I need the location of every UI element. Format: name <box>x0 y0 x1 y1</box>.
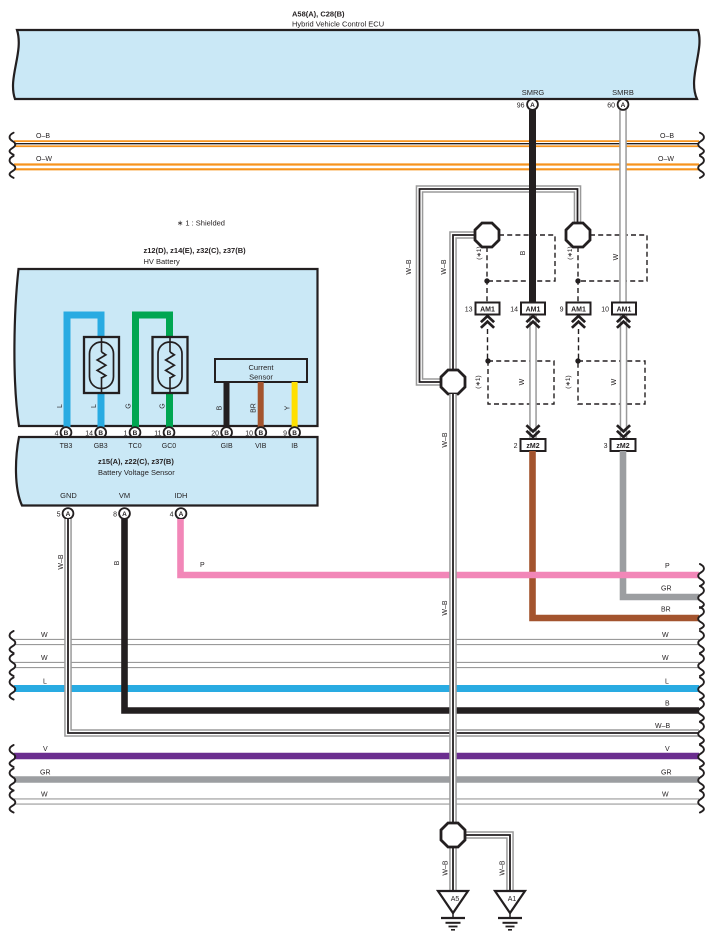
shield dashed lead AM1 9 to lower box <box>578 329 580 361</box>
connector AM1 pin 14 <box>510 303 545 315</box>
svg-text:W–B: W–B <box>443 860 450 876</box>
chevron above zM2 2 <box>526 425 539 437</box>
svg-text:60: 60 <box>607 103 615 110</box>
svg-text:TB3: TB3 <box>60 443 73 450</box>
bus wire W 3 <box>14 792 699 802</box>
svg-text:P: P <box>200 562 205 569</box>
wire L blue loop TB3-GB3 <box>67 315 101 427</box>
svg-text:W: W <box>41 632 48 639</box>
bus wire V violet <box>14 746 699 756</box>
current sensor box <box>215 359 307 382</box>
svg-text:W–B: W–B <box>441 259 448 275</box>
svg-text:Hybrid Vehicle Control ECU: Hybrid Vehicle Control ECU <box>292 20 384 29</box>
svg-text:W: W <box>41 792 48 799</box>
thermistor temperature sensor 2 <box>153 337 188 393</box>
pin 11 GC0 <box>154 427 174 438</box>
svg-text:zM2: zM2 <box>616 443 629 450</box>
bus wire W 1 <box>14 632 699 642</box>
wire W from AM1 10 to zM2 3 <box>620 315 628 440</box>
svg-text:HV Battery: HV Battery <box>144 257 181 266</box>
Battery Voltage Sensor box <box>16 437 318 506</box>
brace right L <box>698 678 704 700</box>
svg-text:W: W <box>662 632 669 639</box>
svg-text:10: 10 <box>601 307 609 314</box>
wire W-B central vertical octagon3 to octagon4 <box>449 394 457 823</box>
brace right P <box>698 564 704 586</box>
svg-text:IDH: IDH <box>175 491 188 500</box>
svg-text:W–B: W–B <box>500 860 507 876</box>
wire B from VM pin to right edge <box>125 519 700 711</box>
svg-text:B: B <box>217 405 224 410</box>
wire W-B inner (octagon1 to octagon3) <box>453 235 475 370</box>
brace left V <box>10 745 16 767</box>
svg-text:GC0: GC0 <box>162 443 177 450</box>
shield octagon 2 <box>566 223 590 247</box>
svg-text:AM1: AM1 <box>571 307 586 314</box>
svg-text:(∗1): (∗1) <box>565 375 572 388</box>
pin 96 SMRG <box>517 99 538 110</box>
svg-text:B: B <box>665 701 670 708</box>
shield dashed box lower left <box>488 361 554 404</box>
svg-text:SMRG: SMRG <box>522 88 545 97</box>
svg-text:4: 4 <box>170 512 174 519</box>
pin 5 GND <box>57 508 74 519</box>
shield dashed box upper right (around wire W) <box>578 235 647 281</box>
brace left W2 <box>10 654 16 676</box>
svg-text:GR: GR <box>661 770 672 777</box>
svg-text:W–B: W–B <box>442 600 449 616</box>
svg-text:W–B: W–B <box>442 432 449 448</box>
pin 20 GIB <box>211 427 232 438</box>
brace left W1 <box>10 631 16 653</box>
pin 10 VIB <box>245 427 266 438</box>
junction dot lower left shield <box>485 358 490 363</box>
bus wire W 2 <box>14 655 699 665</box>
pin 14 GB3 <box>85 427 106 438</box>
svg-text:TC0: TC0 <box>128 443 141 450</box>
wire P from IDH pin to right edge <box>181 519 700 575</box>
ground A1 <box>495 891 525 930</box>
svg-text:A: A <box>179 511 184 518</box>
ECU header label A58(A), C28(B) <box>292 10 384 29</box>
shield octagon 4 <box>441 823 465 847</box>
svg-text:W: W <box>662 792 669 799</box>
connector AM1 pin 13 <box>465 303 500 315</box>
wire BR from zM2 2 to right edge <box>533 451 700 618</box>
svg-text:GB3: GB3 <box>94 443 108 450</box>
junction dot upper left shield <box>484 278 489 283</box>
ground A5 <box>438 891 468 930</box>
svg-text:z12(D), z14(E), z32(C), z37(B): z12(D), z14(E), z32(C), z37(B) <box>144 246 247 255</box>
shield dashed lead octagon1 to AM1 13 <box>486 247 488 303</box>
svg-text:A: A <box>621 102 626 109</box>
svg-text:Y: Y <box>285 405 292 410</box>
svg-text:A: A <box>122 511 127 518</box>
brace right B <box>698 700 704 722</box>
svg-text:W: W <box>611 378 618 385</box>
svg-text:Current: Current <box>248 363 274 372</box>
wire B current sensor to GIB <box>224 382 230 427</box>
svg-text:L: L <box>57 404 64 408</box>
HV Battery box <box>14 269 317 426</box>
wire W from SMRB pin 60 to AM1 10 <box>619 110 627 303</box>
svg-text:GR: GR <box>40 770 51 777</box>
brace left W3 <box>10 791 16 813</box>
shield octagon 3 <box>441 370 465 394</box>
brace left O-B <box>10 133 16 155</box>
pin 4 IDH <box>170 508 187 519</box>
brace right V <box>698 745 704 767</box>
junction dot upper right shield <box>575 278 580 283</box>
svg-text:8: 8 <box>113 512 117 519</box>
svg-text:A: A <box>66 511 71 518</box>
brace right BR <box>698 607 704 629</box>
brace right GR <box>698 769 704 791</box>
svg-text:A1: A1 <box>508 896 517 903</box>
wire W from AM1 14 to zM2 2 <box>529 315 537 440</box>
chevron below AM1 14 <box>526 316 539 328</box>
svg-text:P: P <box>665 563 670 570</box>
connector AM1 pin 10 <box>601 303 636 315</box>
svg-text:L: L <box>43 679 47 686</box>
svg-text:O–W: O–W <box>36 156 52 163</box>
wire O-B horizontal <box>14 133 699 144</box>
wire Y current sensor to IB <box>292 382 298 427</box>
brace right W1 <box>698 631 704 653</box>
svg-text:G: G <box>126 403 133 408</box>
svg-text:W: W <box>662 655 669 662</box>
thermistor temperature sensor 1 <box>84 337 119 393</box>
svg-text:W–B: W–B <box>406 259 413 275</box>
svg-text:AM1: AM1 <box>617 307 632 314</box>
wire G green loop TC0-GC0 <box>136 315 170 427</box>
svg-text:O–B: O–B <box>660 133 674 140</box>
svg-text:B: B <box>114 560 121 565</box>
pin 1 TC0 <box>124 427 141 438</box>
svg-text:A: A <box>530 102 535 109</box>
svg-text:V: V <box>43 746 48 753</box>
wire W-B outer loop (octagon3 to octagon2) <box>420 189 578 382</box>
svg-text:AM1: AM1 <box>526 307 541 314</box>
connector AM1 pin 9 <box>560 303 591 315</box>
HV Battery header label z12(D), z14(E), z32(C), z37(B) <box>144 246 247 266</box>
svg-text:SMRB: SMRB <box>612 88 634 97</box>
svg-text:G: G <box>160 403 167 408</box>
svg-text:2: 2 <box>514 443 518 450</box>
wire W-B octagon4 to ground A1 <box>465 835 510 891</box>
brace right W3 <box>698 791 704 813</box>
svg-text:9: 9 <box>560 307 564 314</box>
shield dashed box lower right <box>578 361 645 404</box>
chevron below AM1 9 <box>572 316 585 328</box>
chevron below AM1 13 <box>481 316 494 328</box>
svg-text:AM1: AM1 <box>480 307 495 314</box>
svg-text:W: W <box>519 378 526 385</box>
svg-text:W–B: W–B <box>655 723 671 730</box>
svg-text:L: L <box>91 404 98 408</box>
Hybrid Vehicle Control ECU box <box>13 30 700 99</box>
svg-text:Battery Voltage Sensor: Battery Voltage Sensor <box>98 468 175 477</box>
svg-text:BR: BR <box>661 607 671 614</box>
chevron above zM2 3 <box>617 425 630 437</box>
svg-text:5: 5 <box>57 512 61 519</box>
brace right O-B <box>698 133 704 155</box>
pin 4 TB3 <box>55 427 72 438</box>
svg-text:Sensor: Sensor <box>249 373 273 382</box>
svg-text:GND: GND <box>60 491 77 500</box>
brace right W2 <box>698 654 704 676</box>
svg-text:B: B <box>520 250 527 255</box>
bus wire GR gray <box>14 770 699 780</box>
svg-text:W–B: W–B <box>58 554 65 570</box>
wire B from SMRG pin 96 to AM1 14 <box>529 110 536 303</box>
connector zM2 pin 3 <box>604 439 636 451</box>
svg-text:IB: IB <box>291 443 298 450</box>
wire O-W horizontal <box>14 156 699 167</box>
wire W-B octagon4 to ground A5 <box>449 847 457 891</box>
chevron below AM1 10 <box>617 316 630 328</box>
svg-text:A5: A5 <box>451 896 460 903</box>
Battery Voltage Sensor header label z15(A), z22(C), z37(B) <box>98 457 175 477</box>
svg-text:∗ 1 : Shielded: ∗ 1 : Shielded <box>177 219 225 228</box>
svg-text:O–B: O–B <box>36 133 50 140</box>
svg-text:BR: BR <box>251 403 258 413</box>
wire W-B from GND pin to right edge <box>68 519 699 733</box>
svg-text:14: 14 <box>510 307 518 314</box>
pin 60 SMRB <box>607 99 628 110</box>
brace left O-W <box>10 156 16 178</box>
svg-text:13: 13 <box>465 307 473 314</box>
svg-text:W: W <box>613 253 620 260</box>
shield dashed lead octagon2 to AM1 9 <box>577 247 579 303</box>
wire GR from zM2 3 to right edge <box>623 451 699 597</box>
pin 9 IB <box>283 427 300 438</box>
svg-text:GR: GR <box>661 586 672 593</box>
brace right W-B <box>698 722 704 744</box>
svg-text:A58(A), C28(B): A58(A), C28(B) <box>292 10 345 19</box>
bus wire L blue <box>14 679 699 689</box>
svg-text:zM2: zM2 <box>526 443 539 450</box>
junction dot lower right shield <box>575 358 580 363</box>
svg-text:(∗1): (∗1) <box>475 375 482 388</box>
shield dashed box upper left (around wire B) <box>487 235 555 281</box>
svg-text:O–W: O–W <box>658 156 674 163</box>
brace right GR upper <box>698 586 704 608</box>
svg-text:3: 3 <box>604 443 608 450</box>
brace left L <box>10 678 16 700</box>
brace right O-W <box>698 156 704 178</box>
svg-text:VM: VM <box>119 491 130 500</box>
svg-text:V: V <box>665 746 670 753</box>
wire BR current sensor to VIB <box>258 382 264 427</box>
svg-text:GIB: GIB <box>221 443 233 450</box>
connector zM2 pin 2 <box>514 439 546 451</box>
shield dashed lead AM1 13 to lower box <box>487 329 489 361</box>
svg-text:z15(A), z22(C), z37(B): z15(A), z22(C), z37(B) <box>98 457 174 466</box>
svg-text:VIB: VIB <box>255 443 267 450</box>
svg-text:W: W <box>41 655 48 662</box>
svg-text:L: L <box>665 679 669 686</box>
brace left GR <box>10 769 16 791</box>
shield octagon 1 <box>475 223 499 247</box>
pin 8 VM <box>113 508 130 519</box>
svg-text:96: 96 <box>517 103 525 110</box>
